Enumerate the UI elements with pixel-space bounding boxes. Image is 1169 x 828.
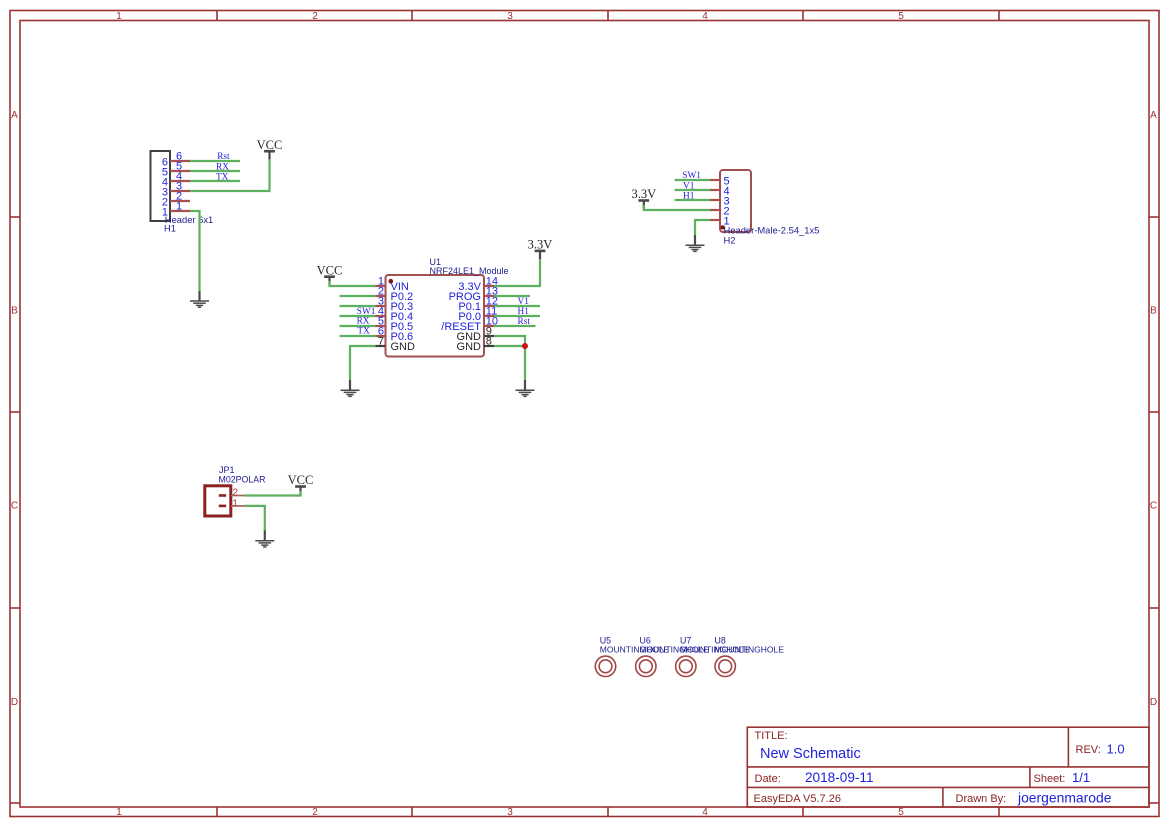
svg-text:1: 1 xyxy=(232,497,238,509)
svg-text:1: 1 xyxy=(116,807,122,818)
frame column ticks top xyxy=(217,11,999,21)
svg-text:New Schematic: New Schematic xyxy=(760,746,861,762)
mounting hole U6 pad rings xyxy=(636,656,656,676)
H2 pin1 dot xyxy=(721,225,725,229)
JP1 internal pin bar 1 xyxy=(219,505,226,508)
U1 pin1 dot xyxy=(389,279,394,284)
svg-text:Date:: Date: xyxy=(755,773,781,785)
svg-text:A: A xyxy=(11,110,18,121)
wire U1 pin12 net V1 xyxy=(494,305,540,307)
JP1 pin stubs xyxy=(231,496,245,506)
frame row letters left xyxy=(11,110,18,708)
svg-text:2: 2 xyxy=(312,11,318,22)
connector H1 Header 6x1 body xyxy=(151,151,171,221)
wire H2 pin2 from 3.3V xyxy=(644,205,710,210)
svg-text:TX: TX xyxy=(357,327,370,337)
svg-text:M02POLAR: M02POLAR xyxy=(219,475,266,485)
wire H1 pin6 net Rst xyxy=(190,160,240,162)
frame column numbers top xyxy=(116,11,904,22)
svg-text:SW1: SW1 xyxy=(682,171,701,181)
wire U1 pin4 net SW1 xyxy=(340,315,376,317)
wire U1 pin13 PROG xyxy=(494,295,530,297)
svg-text:REV:: REV: xyxy=(1076,744,1101,756)
svg-text:TX: TX xyxy=(216,172,229,182)
svg-text:V1: V1 xyxy=(518,297,530,307)
svg-text:3: 3 xyxy=(507,807,513,818)
power flag VCC at H1 xyxy=(257,138,283,160)
svg-text:Header-Male-2.54_1x5: Header-Male-2.54_1x5 xyxy=(724,224,820,235)
svg-text:joergenmarode: joergenmarode xyxy=(1017,790,1112,806)
U1 right pin stubs 14-8 xyxy=(484,286,494,346)
svg-text:D: D xyxy=(11,697,18,708)
svg-text:1/1: 1/1 xyxy=(1072,770,1090,785)
frame column ticks bottom xyxy=(217,807,999,817)
svg-text:NRF24LE1_Module: NRF24LE1_Module xyxy=(430,266,509,276)
wire U1 pin14 to 3.3V xyxy=(494,259,540,286)
svg-text:1: 1 xyxy=(116,11,122,22)
H1 pin numbers above stubs xyxy=(176,151,182,213)
wire U1 pin1 VIN from VCC xyxy=(330,281,376,286)
svg-text:1: 1 xyxy=(176,201,182,213)
svg-text:2: 2 xyxy=(312,807,318,818)
svg-text:VCC: VCC xyxy=(317,263,343,277)
svg-text:7: 7 xyxy=(378,336,384,348)
svg-text:4: 4 xyxy=(702,807,708,818)
wire U1 pin8 GND to ground xyxy=(494,346,525,380)
U1 left pin names xyxy=(391,281,416,353)
H1 pin stubs 6..1 xyxy=(170,161,190,211)
svg-text:2018-09-11: 2018-09-11 xyxy=(805,770,874,785)
power flag 3.3V at U1 xyxy=(528,238,553,260)
svg-text:H2: H2 xyxy=(724,234,736,245)
wire H2 pin5 net SW1 xyxy=(675,179,710,181)
frame row ticks right xyxy=(1149,217,1159,803)
wire H1 pin1 to ground xyxy=(190,211,200,291)
svg-text:Rst: Rst xyxy=(217,152,230,162)
wire H2 pin1 to ground xyxy=(695,220,710,235)
U1 right pin names xyxy=(441,281,481,353)
svg-text:GND: GND xyxy=(391,341,416,353)
svg-text:C: C xyxy=(1150,501,1157,512)
wire H1 pin5 net RX xyxy=(190,170,240,172)
svg-text:5: 5 xyxy=(898,807,904,818)
wire U1 pin3 xyxy=(340,305,376,307)
wire U1 pin5 net RX xyxy=(340,325,376,327)
wire H1 pin4 net TX xyxy=(190,180,240,182)
ground at U1 pins8-9 xyxy=(516,380,535,396)
svg-text:H1: H1 xyxy=(683,191,695,201)
mounting hole U7 pad rings xyxy=(676,656,696,676)
svg-text:RX: RX xyxy=(357,317,370,327)
svg-text:Rst: Rst xyxy=(518,317,531,327)
H2 pin numbers xyxy=(724,176,730,228)
frame row letters right xyxy=(1150,110,1157,708)
svg-text:RX: RX xyxy=(216,162,229,172)
svg-text:3: 3 xyxy=(507,11,513,22)
U1 right pin numbers xyxy=(486,276,498,348)
svg-text:SW1: SW1 xyxy=(357,307,376,317)
wire H2 pin4 net V1 xyxy=(675,189,710,191)
power flag VCC at U1 xyxy=(317,263,343,285)
svg-text:Sheet:: Sheet: xyxy=(1034,773,1066,785)
ground at JP1 pin1 xyxy=(255,531,274,547)
H1 pin numbers inside body xyxy=(162,156,168,218)
U1 left pin stubs 1-7 xyxy=(376,286,386,346)
svg-text:H1: H1 xyxy=(518,307,530,317)
frame row ticks left xyxy=(10,217,20,803)
svg-text:VCC: VCC xyxy=(288,473,314,487)
connector JP1 M02POLAR body xyxy=(205,486,231,516)
svg-text:TITLE:: TITLE: xyxy=(755,730,788,742)
frame column numbers bottom xyxy=(116,807,904,818)
mounting hole U5 pad rings xyxy=(595,656,615,676)
svg-text:H1: H1 xyxy=(164,223,176,234)
svg-text:EasyEDA V5.7.26: EasyEDA V5.7.26 xyxy=(754,793,841,805)
svg-text:V1: V1 xyxy=(683,181,695,191)
wire JP1 pin2 from VCC xyxy=(245,491,301,496)
mounting hole U8 pad rings xyxy=(715,656,735,676)
power flag VCC at JP1 xyxy=(288,473,314,495)
svg-text:VCC: VCC xyxy=(257,138,283,152)
svg-text:8: 8 xyxy=(486,336,492,348)
wire U1 pin10 net Rst xyxy=(494,325,536,327)
svg-text:C: C xyxy=(11,501,18,512)
svg-text:1.0: 1.0 xyxy=(1107,742,1125,757)
ground at U1 pin7 xyxy=(341,380,360,396)
JP1 internal pin bar 2 xyxy=(219,494,226,497)
U1 left pin numbers xyxy=(378,276,384,348)
svg-text:B: B xyxy=(1150,306,1157,317)
H2 pin stubs 5..1 xyxy=(710,180,720,220)
svg-text:3.3V: 3.3V xyxy=(631,187,656,201)
power flag 3.3V at H2 xyxy=(631,187,656,209)
svg-text:GND: GND xyxy=(457,341,482,353)
svg-text:D: D xyxy=(1150,697,1157,708)
wire JP1 pin1 to ground xyxy=(245,506,265,531)
wire U1 pin2 xyxy=(340,295,376,297)
wire U1 pin6 net TX xyxy=(340,335,376,337)
svg-text:A: A xyxy=(1150,110,1157,121)
ground at H2 pin1 xyxy=(686,235,705,251)
wire H2 pin3 net H1 xyxy=(675,199,710,201)
wire U1 pin9 GND xyxy=(494,336,525,346)
wire U1 pin11 net H1 xyxy=(494,315,540,317)
connector H2 Header-Male-2.54_1x5 body xyxy=(720,170,751,232)
wire U1 pin7 GND to ground xyxy=(350,346,376,380)
svg-text:5: 5 xyxy=(898,11,904,22)
svg-text:B: B xyxy=(11,306,18,317)
svg-text:Drawn By:: Drawn By: xyxy=(956,793,1007,805)
wire H1 pin3 to VCC xyxy=(190,160,270,191)
svg-text:MOUNTINGHOLE: MOUNTINGHOLE xyxy=(715,644,785,654)
svg-text:4: 4 xyxy=(702,11,708,22)
IC U1 NRF24LE1_Module body xyxy=(386,275,485,357)
ground at H1 pin1 xyxy=(190,291,209,307)
junction at U1 pin8 wire xyxy=(522,343,528,349)
title block outline xyxy=(747,727,1149,807)
svg-text:3.3V: 3.3V xyxy=(528,238,553,252)
